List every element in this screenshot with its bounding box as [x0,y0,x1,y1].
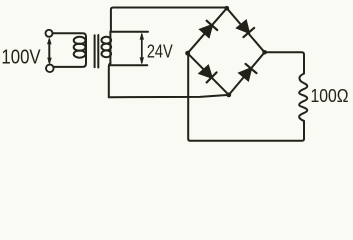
svg-text:100V: 100V [1,45,41,68]
svg-text:100Ω: 100Ω [311,85,349,107]
svg-text:24V: 24V [147,41,174,62]
